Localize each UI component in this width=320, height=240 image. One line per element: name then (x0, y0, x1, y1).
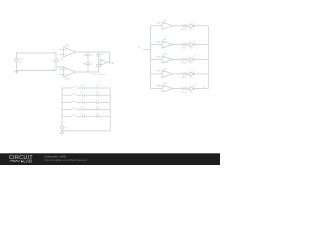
resistor R6 (181, 43, 188, 45)
wire (194, 25, 208, 27)
wire left bus (150, 26, 152, 89)
wire feedback (109, 52, 111, 62)
wire (98, 115, 110, 117)
wire (84, 94, 96, 96)
op-amp OA6 (162, 56, 173, 63)
capacitor C10 (83, 115, 85, 118)
wire (151, 59, 163, 61)
wire (62, 108, 71, 110)
wire (188, 44, 190, 46)
wire (173, 88, 181, 90)
wire (84, 101, 96, 103)
wire (55, 53, 57, 60)
wire left bus (61, 88, 63, 126)
wire column B (98, 52, 100, 72)
wire OA1 +input (60, 54, 64, 56)
svg-text:R6 1k: R6 1k (181, 48, 187, 50)
wire (84, 115, 96, 117)
wire right bus (207, 26, 209, 89)
switch S2 (71, 93, 77, 95)
svg-text:R7 1k: R7 1k (181, 63, 187, 65)
ground (60, 129, 65, 135)
wire (77, 108, 83, 110)
wire (77, 115, 83, 117)
LED D1 (190, 24, 194, 28)
wire (62, 115, 71, 117)
switch S3 (71, 101, 77, 103)
capacitor C7 (83, 94, 85, 97)
capacitor C3 (86, 63, 91, 65)
wire bottom rail (62, 130, 110, 132)
wire OA2 +input (60, 74, 64, 76)
svg-text:R9 1k: R9 1k (181, 92, 187, 94)
ground (15, 71, 19, 74)
LED D5 (190, 87, 194, 91)
wire (194, 59, 208, 61)
wire (151, 73, 163, 75)
op-amp OA7 (162, 70, 173, 77)
capacitor C13 (97, 101, 99, 104)
voltage source V1 (15, 59, 19, 63)
wire (16, 53, 56, 59)
wire column A (87, 52, 89, 72)
svg-text:OA5: OA5 (156, 40, 161, 43)
wire OA2 -input (60, 69, 64, 71)
wire OA2 output / bottom rail (76, 71, 99, 73)
svg-text:R4 1k: R4 1k (100, 74, 107, 76)
capacitor C1 (53, 60, 59, 62)
op-amp OA1 (64, 47, 76, 57)
wire OA1 output / top rail (76, 51, 110, 53)
svg-text:C5 1u: C5 1u (92, 74, 99, 76)
LED D4 (190, 72, 194, 76)
wire right bus (109, 88, 111, 131)
wire (173, 44, 181, 46)
wire (98, 108, 110, 110)
wire (188, 59, 190, 61)
CircuitLab logo resistor glyph (10, 160, 21, 162)
resistor R8 (181, 73, 188, 75)
capacitor C14 (97, 108, 99, 111)
svg-text:Asamineks / aWD: Asamineks / aWD (45, 154, 66, 158)
capacitor C6 (83, 87, 85, 90)
wire node p stub (143, 49, 151, 51)
wire (84, 108, 96, 110)
wire (77, 94, 83, 96)
op-amp OA4 (162, 22, 173, 29)
wire (151, 25, 163, 27)
capacitor C11 (97, 87, 99, 90)
wire (77, 87, 83, 89)
wire (173, 25, 181, 27)
wire (151, 44, 163, 46)
op-amp OA5 (162, 41, 173, 48)
wire (98, 94, 110, 96)
svg-text:http://circuitlab.com/c/p6g4zn: http://circuitlab.com/c/p6g4znauenwf (45, 158, 87, 162)
node junction dots (16, 51, 111, 131)
svg-text:OA4: OA4 (156, 22, 161, 25)
wire (98, 101, 110, 103)
LED D3 (190, 57, 194, 61)
svg-text:OA6: OA6 (156, 55, 161, 58)
switch S4 (71, 108, 77, 110)
wire (173, 59, 181, 61)
svg-text:R8 1k: R8 1k (181, 77, 187, 79)
svg-text:OA1: OA1 (65, 44, 71, 47)
svg-text:R5 1k: R5 1k (181, 29, 187, 31)
wire (188, 73, 190, 75)
op-amp OA3 (100, 59, 107, 65)
capacitor C8 (83, 101, 85, 104)
svg-text:▸LAB: ▸LAB (21, 159, 32, 164)
wire (194, 73, 208, 75)
op-amp OA2 (64, 67, 76, 77)
wire (194, 88, 208, 90)
wire (188, 88, 190, 90)
wire (62, 87, 71, 89)
capacitor C2 (86, 54, 91, 56)
op-amp OA8 (162, 85, 173, 92)
watermark bar (0, 153, 220, 165)
resistor R7 (181, 58, 188, 60)
wire (98, 87, 110, 89)
capacitor C5 (96, 65, 101, 67)
resistor R5 (181, 25, 188, 27)
wire (173, 73, 181, 75)
svg-text:OA2: OA2 (65, 78, 71, 81)
voltage source V2 (60, 126, 63, 129)
wire (188, 25, 190, 27)
wire (62, 94, 71, 96)
wire (77, 101, 83, 103)
svg-text:OA8: OA8 (156, 84, 161, 87)
wire (16, 62, 56, 71)
wire (151, 88, 163, 90)
resistor R9 (181, 88, 188, 90)
capacitor C9 (83, 108, 85, 111)
capacitor C12 (97, 94, 99, 97)
wire (194, 44, 208, 46)
switch S1 (71, 86, 77, 88)
svg-text:OA7: OA7 (156, 70, 161, 73)
capacitor C4 (96, 55, 101, 57)
LED D2 (190, 42, 194, 46)
wire OA1 -input (60, 49, 64, 51)
switch S5 (71, 115, 77, 117)
wire (62, 101, 71, 103)
wire OA3 output (107, 61, 112, 63)
capacitor C15 (97, 115, 99, 118)
wire (84, 87, 96, 89)
